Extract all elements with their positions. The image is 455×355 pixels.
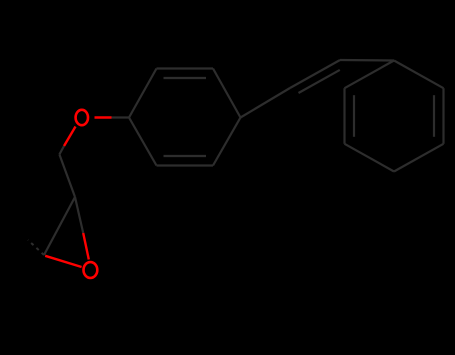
ring1 edge TL-TR: [157, 67, 214, 69]
ring2 edge T-UR: [394, 61, 444, 89]
ring1 edge TR-R: [213, 69, 241, 118]
bond V3-O2 red: [45, 256, 81, 267]
bond V1-V2: [59, 154, 75, 197]
ring1 edge R-BR: [213, 118, 241, 166]
bond V2-O2 white half: [75, 197, 83, 233]
ring1 edge BR-BL: [157, 164, 214, 166]
atom label O1 (ether oxygen): [76, 110, 88, 125]
bond O1-V1 white half: [59, 146, 64, 154]
ring2 edge LL-UL: [343, 88, 345, 144]
double bond C1=C2 main: [290, 60, 340, 88]
bond V2-O2 red half: [83, 233, 89, 260]
ring2 edge LR-B: [394, 144, 444, 172]
ring2 inner left: [353, 95, 355, 137]
ring2 inner right: [433, 95, 435, 137]
ring2 edge UR-LR: [442, 88, 444, 144]
ring1 inner top: [164, 77, 207, 79]
atom label O2 (epoxide oxygen): [84, 262, 98, 278]
ring1 edge L-TL: [129, 69, 157, 118]
ring1 inner bottom: [164, 155, 207, 157]
double bond C1=C2 inner: [299, 70, 340, 93]
bond O1-ring (white half): [112, 116, 130, 118]
ring2 edge B-LL: [345, 144, 395, 172]
bond O1-ring (red half): [95, 116, 112, 118]
bond ring1-C1: [241, 88, 291, 118]
ring1 edge BL-L: [129, 118, 157, 166]
bond O1-V1 red half: [64, 127, 76, 147]
ring2 edge UL-T: [345, 61, 395, 89]
stereo hash V3: [28, 240, 44, 255]
bond C2-ring2 (horizontal): [340, 59, 394, 62]
bond V2-V3: [44, 197, 75, 255]
